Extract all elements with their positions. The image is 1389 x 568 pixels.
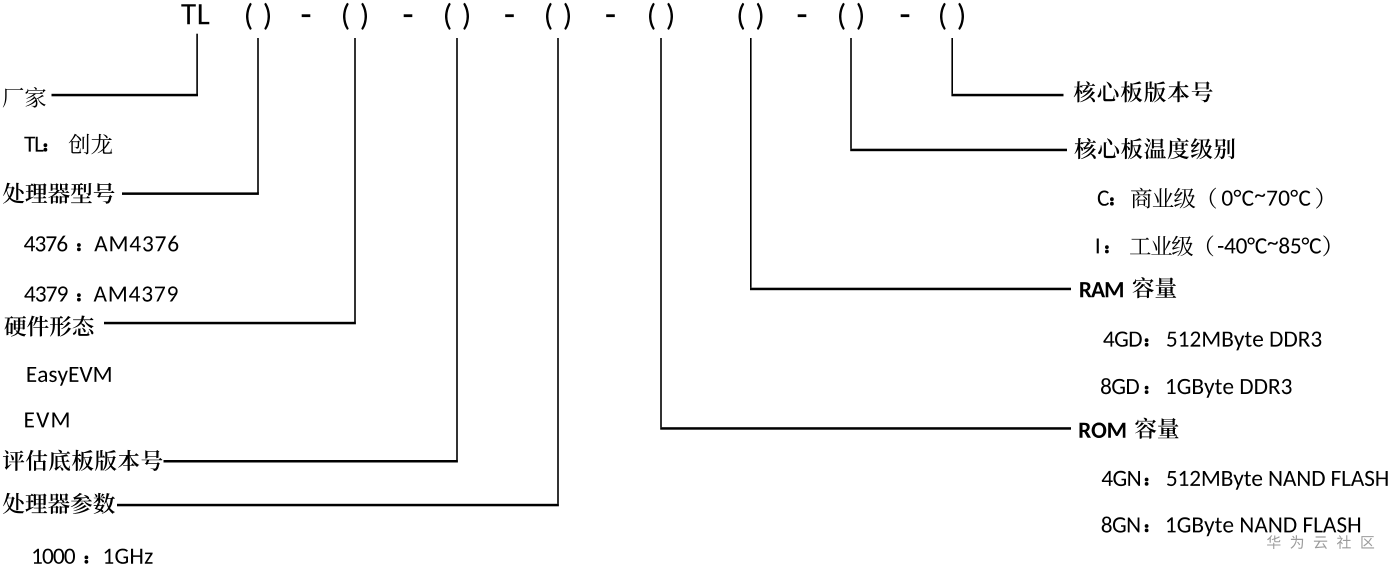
text 4376 xyxy=(24,236,178,252)
watermark huawei cloud xyxy=(1267,535,1374,549)
wire hwform across xyxy=(104,322,356,325)
wire baseboard across xyxy=(164,460,458,463)
wire model across xyxy=(122,192,259,195)
wire version across xyxy=(951,94,1063,97)
label hardware form xyxy=(5,316,94,337)
text 1000 1GHz xyxy=(33,549,153,564)
wire blank4 down xyxy=(557,38,559,504)
label ROM capacity xyxy=(1080,418,1179,439)
text 8GD xyxy=(1101,378,1292,398)
wire blank1 down xyxy=(257,38,259,193)
header dash 5 xyxy=(798,14,807,17)
wire temp across xyxy=(850,149,1067,152)
header blank 1 xyxy=(246,3,270,30)
header blank 2 xyxy=(343,3,367,30)
header blank 4 xyxy=(546,3,570,30)
header TL xyxy=(181,4,209,24)
header dash 4 xyxy=(606,14,615,17)
label baseboard version xyxy=(3,450,163,471)
text 4379 xyxy=(24,286,177,301)
header blank 3 xyxy=(445,3,469,30)
text EasyEVM xyxy=(28,367,111,386)
label processor param xyxy=(3,493,115,514)
wire RAM across xyxy=(750,288,1071,291)
label RAM capacity xyxy=(1080,277,1176,298)
text 4GN xyxy=(1102,471,1388,490)
wire blank7 down xyxy=(850,38,852,149)
text 8GN xyxy=(1102,517,1360,537)
wire blank8 down xyxy=(951,38,953,94)
wire factory across xyxy=(52,94,199,97)
wire blank3 down xyxy=(456,38,458,460)
header blank 8 xyxy=(940,3,964,30)
wire blank6 down xyxy=(750,38,752,288)
text EVM xyxy=(25,413,68,428)
header dash 2 xyxy=(404,14,413,17)
label core version xyxy=(1074,81,1213,102)
text 4GD xyxy=(1103,332,1321,351)
header dash 1 xyxy=(302,14,311,17)
text C commercial xyxy=(1098,188,1323,209)
wire blank5 down xyxy=(660,38,662,427)
text TL chuanglong xyxy=(24,134,112,155)
text I industrial xyxy=(1097,235,1330,256)
label processor model xyxy=(3,183,115,204)
wire blank2 down xyxy=(354,38,356,322)
header dash 3 xyxy=(505,14,514,17)
label core temp grade xyxy=(1075,138,1235,159)
wire procparam across xyxy=(117,504,559,507)
header blank 6 xyxy=(739,3,763,30)
header dash 6 xyxy=(901,14,910,17)
header blank 5 xyxy=(649,3,673,30)
wire TL down xyxy=(196,34,198,95)
wire ROM across xyxy=(660,427,1071,430)
label factory xyxy=(3,87,46,108)
header blank 7 xyxy=(839,3,863,30)
